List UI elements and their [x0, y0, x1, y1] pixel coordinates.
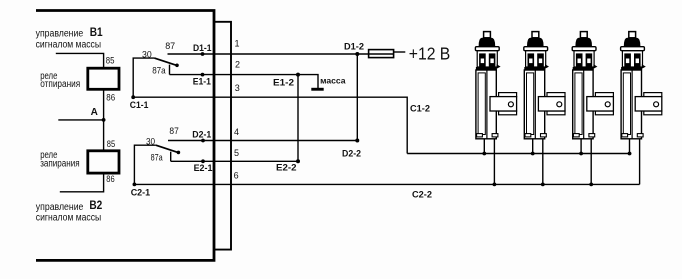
actuator M4 bolt square	[629, 32, 636, 38]
svg-text:85: 85	[107, 139, 115, 150]
relay K2 87a stub	[170, 152, 172, 162]
actuator M4 collar flange	[621, 47, 645, 51]
svg-text:D1-2: D1-2	[344, 41, 364, 52]
svg-text:E1-2: E1-2	[273, 78, 294, 89]
actuator M3 left terminal	[576, 53, 583, 67]
actuator M1 black cap	[479, 38, 496, 47]
svg-text:E2-2: E2-2	[276, 162, 297, 173]
actuator M4 left foot	[622, 134, 628, 137]
junction dot node A	[102, 118, 106, 122]
relay K2 arm contact tip	[177, 151, 181, 155]
svg-text:6: 6	[234, 171, 239, 181]
wire coil K2 pin86 to B2 stub	[60, 173, 104, 192]
actuator M2 bolt square	[532, 32, 539, 38]
actuator M4 bracket plate	[635, 97, 662, 111]
wire actuator 2 right lead down to C2-2 bus	[542, 139, 544, 185]
junction dot actuator 1 right lead / C2-2 bus	[493, 183, 497, 187]
actuator M1 connector housing	[477, 51, 497, 67]
actuator M4 left terminal	[624, 53, 631, 67]
actuator M1 right foot	[492, 134, 498, 137]
svg-text:C1-2: C1-2	[410, 104, 430, 115]
actuator M4 bracket top lip	[644, 93, 662, 97]
junction dot actuator 3 right lead / C2-2 bus	[589, 183, 593, 187]
actuator M4 body	[621, 70, 641, 139]
junction dot E1-2	[296, 73, 300, 77]
actuator M2 body divider	[534, 70, 536, 139]
actuator M3 bracket top lip	[595, 93, 613, 97]
svg-text:сигналом массы: сигналом массы	[36, 213, 101, 224]
connector X1 outline	[214, 22, 231, 250]
relay K1 contact 30 riser to C1-1	[133, 58, 154, 97]
actuator M2 body	[524, 70, 544, 139]
svg-text:B2: B2	[89, 198, 102, 212]
actuator M4 connector housing	[622, 51, 642, 67]
actuator M1 inner slider	[478, 73, 485, 135]
svg-text:86: 86	[106, 174, 114, 185]
junction dot actuator 3 left lead / C1-2 bus	[579, 152, 583, 156]
relay K2 contact 30 riser to C2-1	[134, 145, 156, 184]
actuator M2 right terminal	[537, 53, 544, 67]
actuator M3 left foot	[573, 134, 579, 137]
actuator M1 bolt square	[484, 32, 491, 38]
svg-text:1: 1	[235, 38, 240, 48]
svg-text:D1-1: D1-1	[193, 43, 212, 54]
svg-text:A: A	[91, 107, 98, 118]
relay K1 arm contact tip	[175, 64, 179, 68]
actuator M2 housing base bar	[524, 67, 545, 70]
junction dot D1-2	[355, 52, 359, 56]
junction dot D1-1	[201, 52, 205, 56]
svg-text:C1-1: C1-1	[130, 100, 149, 111]
relay coil K1 (unlock relay)	[88, 68, 119, 89]
wire actuator 3 right lead down to C2-2 bus	[590, 139, 592, 185]
svg-text:сигналом массы: сигналом массы	[36, 39, 101, 50]
junction dot actuator 4 left lead / C1-2 bus	[628, 152, 632, 156]
wire vertical E1-2/E2-2 link	[297, 75, 299, 162]
actuator M1 left foot	[477, 134, 483, 137]
actuator M3 body	[573, 70, 593, 139]
actuator M2 left foot	[525, 134, 531, 137]
wire actuator 4 right lead down to C2-2 bus	[639, 139, 641, 185]
control unit box U1	[36, 11, 214, 261]
junction dot actuator 2 left lead / C1-2 bus	[531, 152, 535, 156]
svg-text:2: 2	[235, 59, 240, 69]
actuator M1 bracket top lip	[499, 93, 517, 97]
relay K1 movable arm 30-87a	[154, 58, 177, 66]
actuator M3 (door lock motor)	[572, 32, 613, 139]
actuator M2 bracket hole	[557, 102, 562, 107]
wire actuator 4 left lead down to C1-2 bus	[629, 139, 631, 154]
actuator M3 right terminal	[586, 53, 593, 67]
actuator M3 body divider	[583, 70, 585, 139]
actuator M4 (door lock motor)	[621, 32, 662, 139]
svg-text:4: 4	[234, 127, 239, 137]
wire pin3 C1-1 row out to C1-2 bus drop	[133, 97, 407, 153]
wire pin5 E2-1 row	[171, 160, 298, 162]
svg-text:E1-1: E1-1	[193, 76, 212, 87]
wire fuse to +12V label	[394, 51, 406, 53]
svg-text:масса: масса	[320, 76, 346, 86]
svg-text:управление: управление	[36, 29, 84, 40]
actuator M4 right terminal	[634, 53, 641, 67]
actuator M3 bolt square	[580, 32, 587, 38]
actuator M3 connector housing	[574, 51, 594, 67]
actuator M1 left terminal	[479, 53, 486, 67]
actuator M1 right terminal	[489, 53, 496, 67]
actuator M4 bracket bottom lip	[644, 111, 662, 115]
wire actuator 1 right lead down to C2-2 bus	[493, 139, 495, 185]
wire vertical D1-2/D2-2 link	[356, 54, 358, 141]
wire pin6 C2-1 row / C2-2 bus to actuators	[134, 183, 640, 185]
relay K2 movable arm 30-87a	[156, 145, 179, 153]
actuator M4 black cap	[624, 38, 641, 47]
svg-text:87: 87	[169, 126, 178, 137]
wire coil K1 pin86 down through node A to coil K2 pin85	[103, 89, 105, 151]
svg-text:87a: 87a	[152, 66, 166, 77]
actuator M1 housing base bar	[476, 67, 497, 70]
relay coil K2 (lock relay)	[88, 151, 119, 173]
wire pin4 D2-1 row	[168, 140, 357, 142]
svg-text:5: 5	[234, 148, 239, 158]
actuator M2 bracket bottom lip	[547, 111, 565, 115]
actuator M3 housing base bar	[573, 67, 594, 70]
actuator M2 right foot	[541, 134, 547, 137]
actuator M1 body divider	[486, 70, 488, 139]
svg-text:B1: B1	[90, 25, 103, 39]
wire node A stub	[58, 119, 103, 121]
actuator M3 black cap	[575, 38, 592, 47]
actuator M2 bracket top lip	[547, 93, 565, 97]
wire C1-2 bus to actuators	[407, 153, 631, 155]
actuator M3 bracket plate	[587, 97, 614, 111]
wire pin2 E1-1 row to ground	[170, 75, 319, 88]
actuator M4 inner slider	[623, 73, 630, 135]
actuator M2 (door lock motor)	[524, 32, 565, 139]
svg-text:E2-1: E2-1	[194, 163, 213, 174]
svg-text:управление: управление	[36, 202, 84, 213]
actuator M3 bracket bottom lip	[595, 111, 613, 115]
actuator M3 collar flange	[572, 47, 596, 51]
svg-text:3: 3	[235, 83, 240, 93]
junction dot actuator 1 left lead / C1-2 bus	[482, 152, 486, 156]
actuator M1 bracket hole	[508, 102, 513, 107]
actuator M1 body	[476, 70, 496, 139]
svg-text:86: 86	[106, 93, 115, 104]
actuator M1 collar flange	[475, 47, 499, 51]
actuator M4 housing base bar	[621, 67, 642, 70]
ground symbol (масса)	[311, 88, 323, 91]
svg-text:D2-1: D2-1	[192, 130, 212, 141]
actuator M3 inner slider	[575, 73, 582, 135]
svg-text:87: 87	[165, 41, 175, 52]
junction dot actuator 2 right lead / C2-2 bus	[541, 183, 545, 187]
actuator M2 inner slider	[527, 73, 534, 135]
wire 85 stub to upper coil (signal ground control B1)	[56, 53, 104, 68]
svg-text:D2-2: D2-2	[342, 149, 361, 160]
junction dot E1-1	[201, 73, 205, 77]
fuse F1	[369, 50, 394, 58]
wire actuator 1 left lead down to C1-2 bus	[483, 139, 485, 154]
actuator M2 black cap	[527, 38, 544, 47]
junction dot C2-1 corner	[133, 183, 137, 187]
svg-text:87a: 87a	[151, 153, 164, 164]
actuator M3 side pointer	[593, 64, 597, 69]
svg-text:85: 85	[106, 55, 115, 66]
junction dot E2-2 corner	[296, 159, 300, 163]
actuator M2 connector housing	[526, 51, 546, 67]
svg-text:30: 30	[142, 49, 152, 60]
actuator M4 body divider	[631, 70, 633, 139]
actuator M1 bracket plate	[490, 97, 517, 111]
svg-text:C2-2: C2-2	[412, 190, 432, 201]
actuator M3 right foot	[589, 134, 595, 137]
wire actuator 3 left lead down to C1-2 bus	[580, 139, 582, 154]
actuator M2 left terminal	[528, 53, 535, 67]
svg-text:+12 В: +12 В	[409, 43, 451, 63]
junction dot E2-1	[201, 159, 205, 163]
relay K1 87a stub	[169, 65, 171, 75]
svg-text:отпирания: отпирания	[40, 79, 80, 90]
actuator M1 bracket bottom lip	[499, 111, 517, 115]
actuator M1 side pointer	[497, 64, 501, 69]
actuator M2 side pointer	[545, 64, 549, 69]
junction dot D2-1	[201, 139, 205, 143]
junction dot D2-2 corner	[355, 139, 359, 143]
svg-text:запирания: запирания	[40, 159, 79, 170]
actuator M1 (door lock motor)	[475, 32, 516, 139]
actuator M4 side pointer	[642, 64, 646, 69]
actuator M2 bracket plate	[538, 97, 565, 111]
svg-text:C2-1: C2-1	[131, 188, 151, 199]
wire pin1 D1-1 row to fuse (+12V feed)	[168, 53, 369, 55]
svg-text:30: 30	[146, 136, 155, 147]
wire actuator 2 left lead down to C1-2 bus	[532, 139, 534, 154]
actuator M4 bracket hole	[654, 102, 659, 107]
actuator M3 bracket hole	[605, 102, 610, 107]
junction dot C1-1 corner	[131, 95, 135, 99]
actuator M4 right foot	[637, 134, 643, 137]
actuator M2 collar flange	[524, 47, 548, 51]
